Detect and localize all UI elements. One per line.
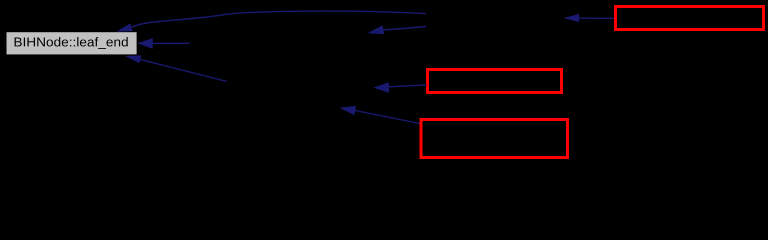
caller node box R1 (top right, red border) [616,7,764,30]
edge D: caller R1 to hidden node N1 (horizontal) [564,14,614,22]
edge E: hidden node N1 to hidden node N2 (short diagonal) [368,25,426,34]
node BIHNode::leaf_end (current node, grey) [7,32,137,54]
caller node box R2 (middle right, red border) [428,70,562,93]
edge G: caller R3 to hidden node N3 (diagonal) [339,106,419,124]
edge A: hidden node N1 to BIHNode::leaf_end (long top curve) [117,11,427,32]
edge F: caller R2 to hidden node N3 (horizontal) [373,82,426,93]
edge C: hidden node N3 to BIHNode::leaf_end (diagonal) [125,55,227,81]
edge B: hidden node N2 to BIHNode::leaf_end (short horizontal) [137,38,189,49]
caller node box R3 (bottom right, red border) [421,120,568,158]
